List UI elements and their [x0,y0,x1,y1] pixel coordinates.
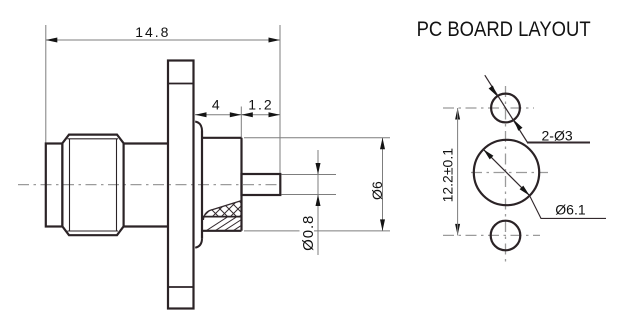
svg-text:Ø0.8: Ø0.8 [300,215,317,251]
svg-text:Ø6: Ø6 [369,181,385,200]
svg-text:2-Ø3: 2-Ø3 [542,128,573,144]
svg-text:4: 4 [212,96,220,112]
svg-text:12.2±0.1: 12.2±0.1 [440,148,456,203]
svg-text:PC BOARD LAYOUT: PC BOARD LAYOUT [417,18,591,42]
svg-text:14.8: 14.8 [135,24,170,40]
svg-text:Ø6.1: Ø6.1 [555,202,586,218]
svg-text:1.2: 1.2 [248,96,273,112]
